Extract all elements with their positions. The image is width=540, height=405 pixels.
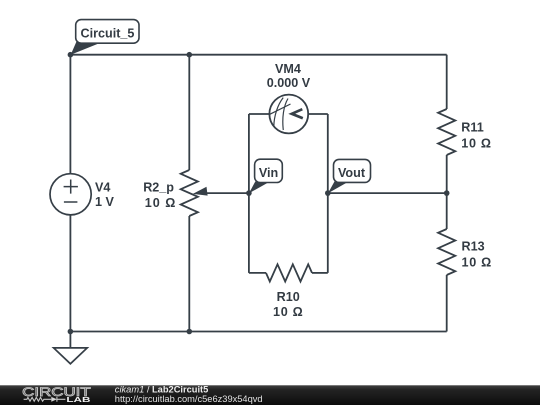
svg-text:0.000 V: 0.000 V: [267, 76, 311, 90]
svg-text:Vin: Vin: [259, 166, 278, 180]
potentiometer R2_p: [181, 170, 208, 216]
wire top net: [70, 54, 446, 56]
junction dot bottom-left: [68, 329, 74, 335]
wire R13 bottom lead: [446, 275, 448, 332]
junction dot Vin: [246, 190, 252, 196]
wire R10 right lead: [312, 272, 328, 274]
svg-text:1 V: 1 V: [95, 195, 115, 209]
svg-text:10 Ω: 10 Ω: [461, 137, 491, 151]
wire R2_p bottom lead: [188, 216, 190, 332]
label R11 10 Ω: [461, 121, 491, 151]
wire V4 top lead: [69, 55, 71, 174]
node label Vout: [328, 159, 371, 193]
wire R2_p top lead: [188, 55, 190, 170]
wire VM4 left lead: [249, 113, 270, 115]
wire Vout to right junction: [328, 192, 447, 194]
wire wiper to Vin node: [204, 192, 249, 194]
junction dot top R2_p: [187, 52, 193, 58]
svg-text:R10: R10: [277, 290, 300, 304]
resistor R11: [438, 109, 455, 155]
svg-text:10 Ω: 10 Ω: [462, 255, 492, 269]
label R10 10 Ω: [273, 290, 303, 319]
label R2_p 10 Ω: [143, 180, 176, 210]
voltmeter VM4: [269, 95, 308, 134]
svg-text:http://circuitlab.com/c5e6z39x: http://circuitlab.com/c5e6z39x54qvd: [115, 394, 263, 404]
label R13 10 Ω: [462, 240, 492, 270]
svg-text:R11: R11: [461, 121, 483, 135]
svg-text:R13: R13: [462, 240, 485, 254]
svg-text:VM4: VM4: [275, 62, 301, 76]
svg-text:LAB: LAB: [66, 395, 91, 404]
ground: [54, 332, 88, 364]
wire R11 to junction: [446, 155, 448, 229]
voltage source V4: [50, 174, 91, 215]
junction dot right: [444, 190, 450, 196]
svg-text:cikam1 / Lab2Circuit5: cikam1 / Lab2Circuit5: [115, 384, 209, 394]
svg-text:V4: V4: [95, 181, 110, 195]
node label Vin: [249, 159, 282, 193]
wire Vin vertical: [248, 114, 250, 273]
svg-text:Circuit_5: Circuit_5: [81, 26, 135, 40]
svg-text:10 Ω: 10 Ω: [273, 305, 303, 319]
label VM4 0.000 V: [267, 62, 311, 90]
node label Circuit_5: [71, 20, 139, 55]
junction dot Vout: [325, 190, 331, 196]
svg-text:R2_p: R2_p: [143, 180, 174, 194]
footer text: [115, 384, 263, 404]
wire V4 bottom lead: [69, 215, 71, 332]
resistor R13: [438, 229, 455, 275]
wire Vout vertical: [327, 114, 329, 273]
wire R11 top lead: [446, 55, 448, 109]
junction dot top-left: [68, 52, 74, 58]
resistor R10: [266, 264, 312, 281]
wire bottom net: [70, 331, 446, 333]
wire R10 left lead: [249, 272, 266, 274]
CircuitLab logo: [22, 385, 91, 404]
junction dot bottom R2_p: [187, 329, 193, 335]
label V4 1 V: [95, 181, 115, 210]
svg-text:10 Ω: 10 Ω: [145, 196, 177, 210]
svg-text:Vout: Vout: [338, 166, 366, 180]
wire VM4 right lead: [308, 113, 328, 115]
footer bar: [0, 385, 540, 405]
